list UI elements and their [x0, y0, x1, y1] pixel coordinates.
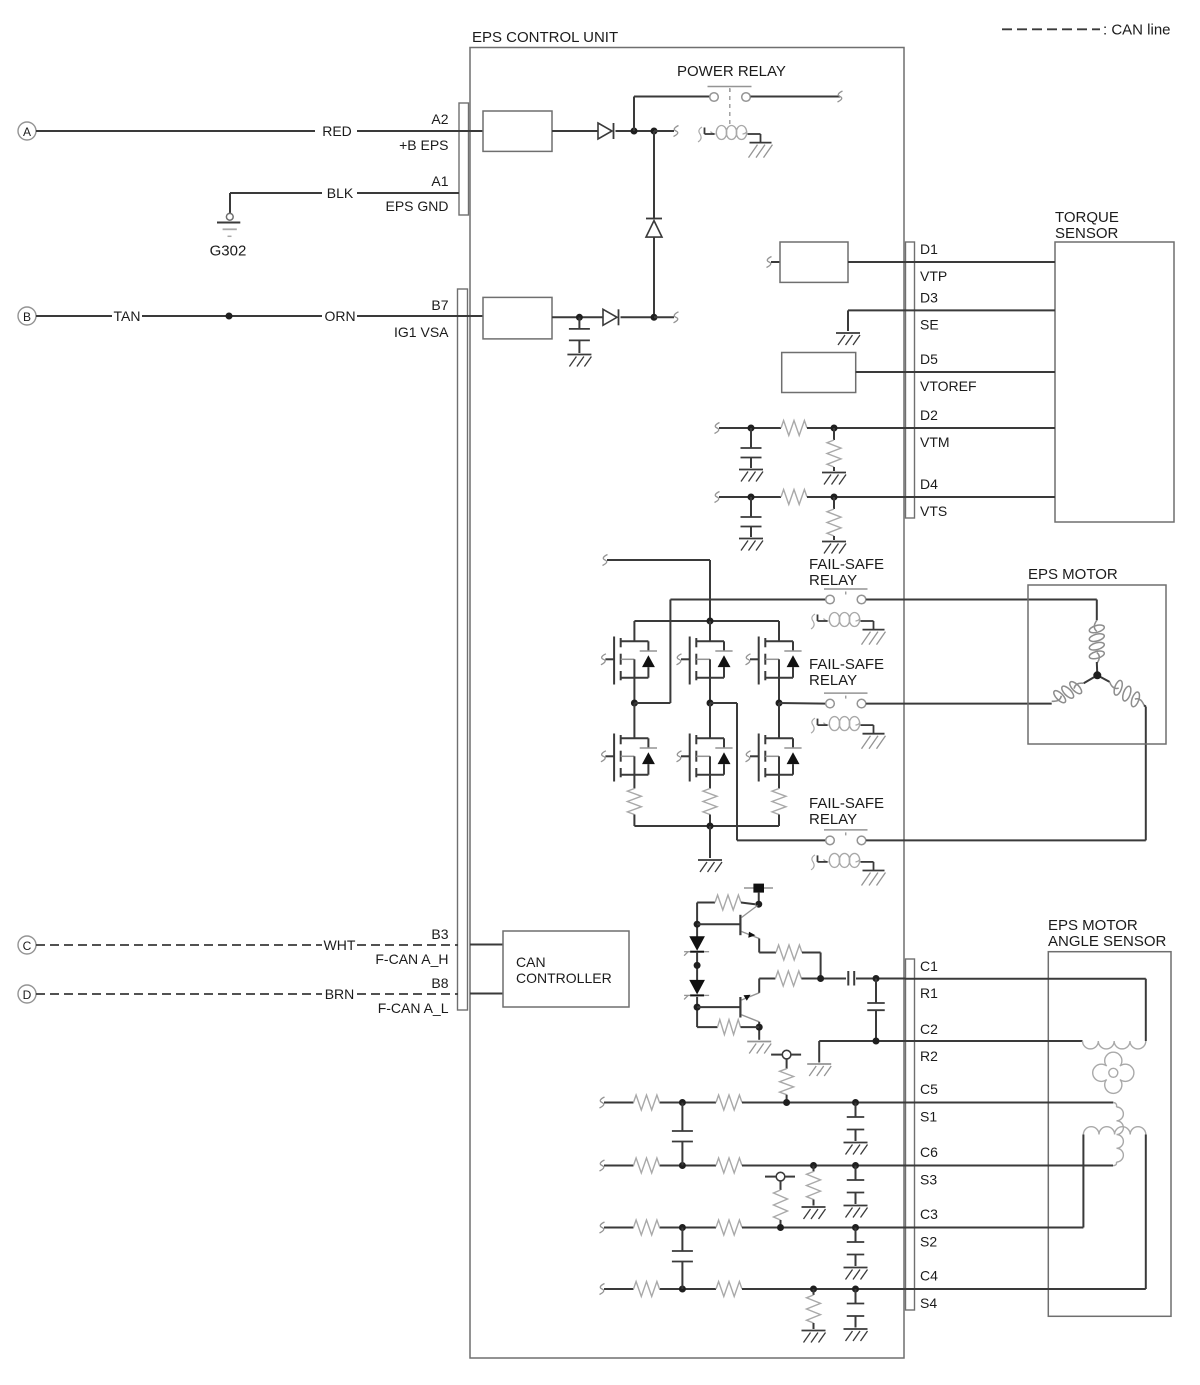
- wire S1 into sensor: [905, 1102, 1113, 1104]
- svg-text:SENSOR: SENSOR: [1055, 225, 1119, 242]
- wire stub to relay coil: [654, 130, 674, 132]
- series capacitor on C1 line: [848, 971, 854, 986]
- wire SE to torque sensor: [848, 309, 1055, 311]
- transistor Q1 collector: [742, 906, 758, 918]
- svg-text:VTP: VTP: [920, 268, 947, 284]
- source wire upper MOSFET U: [633, 678, 635, 703]
- wire diode to node P1: [616, 130, 655, 132]
- pin A2 label: [431, 111, 448, 127]
- svg-text:R1: R1: [920, 985, 938, 1001]
- upper MOSFET V (Q2): [677, 637, 733, 685]
- svg-text:S3: S3: [920, 1172, 937, 1188]
- pin R2 label: [920, 1048, 938, 1064]
- svg-text:VTOREF: VTOREF: [920, 378, 977, 394]
- svg-text:RELAY: RELAY: [809, 572, 857, 589]
- wire diode to IG1 node: [653, 237, 655, 317]
- transistor Q2 collector: [742, 1015, 760, 1022]
- svg-text:RELAY: RELAY: [809, 672, 857, 689]
- svg-text:C2: C2: [920, 1021, 938, 1037]
- pin S4 label: [920, 1295, 937, 1311]
- wire C3 right segment: [742, 1227, 905, 1229]
- svg-text:A1: A1: [431, 173, 448, 189]
- test tap on C3: [765, 1172, 795, 1227]
- wire node P2 down: [653, 131, 655, 219]
- junction C6 c: [852, 1162, 859, 1169]
- wire square to node Q1C: [758, 893, 760, 905]
- wire C5 left segment: [604, 1102, 716, 1104]
- capacitor on IG1 line: [569, 317, 590, 353]
- svg-text:TAN: TAN: [114, 308, 141, 324]
- FAIL-SAFE RELAY 1 label: [809, 556, 884, 589]
- bridge bottom rail: [634, 825, 779, 827]
- svg-text:C4: C4: [920, 1268, 938, 1284]
- lower MOSFET V (Q5): [677, 734, 733, 782]
- pin VTM label: [920, 434, 950, 450]
- ground on C2 line: [807, 1064, 831, 1076]
- series resistor 2 on C5: [716, 1095, 742, 1110]
- svg-text:VTM: VTM: [920, 434, 950, 450]
- break mark on C4 line: [600, 1284, 605, 1295]
- junction tap C3: [777, 1224, 784, 1231]
- drain wire upper MOSFET U: [633, 621, 635, 641]
- capacitor under VTM junction: [741, 428, 762, 468]
- break mark on VTM line: [715, 423, 720, 434]
- svg-text:C: C: [23, 939, 32, 953]
- pin VTP label: [920, 268, 947, 284]
- junction VTS 2: [831, 494, 838, 501]
- svg-text:FAIL-SAFE: FAIL-SAFE: [809, 556, 884, 573]
- motor winding U: [1088, 620, 1105, 663]
- TORQUE SENSOR box: [1055, 209, 1174, 522]
- svg-text:B8: B8: [431, 975, 448, 991]
- source wire upper MOSFET V: [709, 678, 711, 703]
- CAN line legend: [1002, 22, 1171, 39]
- shunt capacitor on C6: [847, 1166, 865, 1205]
- motor phase U lead: [1096, 600, 1098, 621]
- label TAN: [114, 308, 141, 324]
- shunt resistor phase U: [627, 789, 641, 815]
- ground under C4 capacitor: [844, 1329, 868, 1341]
- CAN low dashed wire left: [36, 993, 322, 995]
- fail-safe relay 1 coil: [811, 613, 886, 645]
- svg-text:TORQUE: TORQUE: [1055, 209, 1119, 226]
- phase V wire to fail-safe relay 3: [710, 703, 825, 840]
- drain wire upper MOSFET V: [709, 621, 711, 641]
- pin A2 name +B EPS: [399, 137, 448, 153]
- svg-text:A: A: [23, 125, 31, 139]
- shunt capacitor C1 to C2: [867, 979, 885, 1042]
- ground under C5 capacitor: [844, 1143, 868, 1155]
- wire between clamp diodes: [696, 952, 698, 981]
- label BLK: [327, 185, 354, 201]
- junction for damping resistor: [810, 1162, 817, 1169]
- pin S2 label: [920, 1234, 937, 1250]
- wire C1 into sensor: [905, 979, 1146, 1041]
- pin C2 label: [920, 1021, 938, 1037]
- resistor on VTS line: [781, 490, 807, 505]
- node C: [18, 936, 36, 954]
- damping resistor: [807, 1289, 821, 1329]
- pin D4 label: [920, 476, 938, 492]
- drain wire lower MOSFET W: [778, 703, 780, 738]
- junction tap C5: [783, 1099, 790, 1106]
- label ORN: [324, 308, 355, 324]
- junction for damping resistor: [810, 1286, 817, 1293]
- wire node B to TAN: [36, 315, 112, 317]
- junction phase W: [776, 700, 783, 707]
- junction C3 c: [852, 1224, 859, 1231]
- pin S3 label: [920, 1172, 937, 1188]
- wire B8 to CAN controller: [470, 993, 503, 995]
- wire C3 into sensor: [905, 1135, 1083, 1228]
- wire C4 right segment: [742, 1288, 905, 1290]
- break mark on C6 line: [600, 1160, 605, 1171]
- filter box on D1 line: [780, 242, 848, 282]
- bias resistor upper: [697, 895, 755, 910]
- svg-text:R2: R2: [920, 1048, 938, 1064]
- pin VTS label: [920, 503, 947, 519]
- svg-text:G302: G302: [210, 243, 247, 260]
- svg-text:FAIL-SAFE: FAIL-SAFE: [809, 795, 884, 812]
- pin A1 name EPS GND: [385, 198, 448, 214]
- FAIL-SAFE RELAY 2 label: [809, 656, 884, 689]
- base wire Q2: [697, 1006, 740, 1008]
- svg-text:IG1 VSA: IG1 VSA: [394, 324, 449, 340]
- resolver horizontal winding: [1083, 1127, 1145, 1135]
- ground under C3 capacitor: [844, 1268, 868, 1280]
- ground under damping resistor: [802, 1207, 826, 1219]
- power relay output wire: [751, 96, 840, 98]
- wire B7 box to junction: [552, 316, 603, 318]
- svg-text:BRN: BRN: [325, 986, 355, 1002]
- source wire upper MOSFET W: [778, 678, 780, 703]
- pin C3 label: [920, 1206, 938, 1222]
- wire ORN to pin B7: [357, 315, 483, 317]
- svg-text:D: D: [23, 988, 32, 1002]
- power relay coil dashes: [729, 88, 731, 125]
- motor winding W: [1110, 679, 1144, 707]
- break mark on VTS line: [715, 492, 720, 503]
- junction R3 R4: [817, 975, 824, 982]
- upper MOSFET W (Q3): [746, 637, 802, 685]
- EPS control unit box: [470, 29, 904, 1358]
- drain wire lower MOSFET V: [709, 703, 711, 738]
- svg-text:RED: RED: [322, 123, 352, 139]
- junction C5 a: [679, 1099, 686, 1106]
- wire D5 to torque sensor: [856, 371, 1055, 373]
- CAN high dashed wire left: [36, 944, 322, 946]
- fail-safe relay 2 contact: [824, 693, 868, 708]
- wire relay 2 to EPS motor: [866, 703, 1052, 705]
- test tap on C5: [771, 1050, 801, 1102]
- svg-text:BLK: BLK: [327, 185, 354, 201]
- junction node P2: [651, 128, 658, 135]
- svg-text:WHT: WHT: [324, 937, 356, 953]
- wire Q1 emitter to resistor: [759, 939, 776, 953]
- wire C4 into sensor: [905, 1135, 1146, 1290]
- series resistor 2 on C4: [716, 1282, 742, 1297]
- pin D5 label: [920, 351, 938, 367]
- wire filter to diode: [552, 130, 598, 132]
- series resistor 1 on C5: [634, 1095, 660, 1110]
- svg-text:RELAY: RELAY: [809, 811, 857, 828]
- svg-text:B7: B7: [431, 297, 448, 313]
- svg-text:: CAN line: : CAN line: [1103, 22, 1171, 39]
- damping resistor: [807, 1166, 821, 1206]
- pin A1 label: [431, 173, 448, 189]
- wire C4 left segment: [604, 1288, 716, 1290]
- junction phase V: [707, 700, 714, 707]
- fail-safe relay 3 coil: [811, 853, 886, 885]
- differential capacitor C5-C6: [672, 1103, 693, 1166]
- svg-text:ANGLE SENSOR: ANGLE SENSOR: [1048, 933, 1167, 950]
- svg-text:C1: C1: [920, 958, 938, 974]
- series resistor 1 on C6: [634, 1158, 660, 1173]
- series resistor 1 on C3: [634, 1220, 660, 1235]
- svg-text:EPS CONTROL UNIT: EPS CONTROL UNIT: [472, 29, 618, 46]
- junction VTS 1: [748, 494, 755, 501]
- capacitor under VTS junction: [741, 497, 762, 537]
- svg-text:D2: D2: [920, 407, 938, 423]
- pin C1 label: [920, 958, 938, 974]
- wire VTS right segment: [807, 496, 1055, 498]
- ground under VTS capacitor: [739, 539, 763, 551]
- junction upper base: [694, 921, 701, 928]
- wire node A to RED: [36, 130, 315, 132]
- ground under VTM capacitor: [739, 470, 763, 482]
- connector bracket B (pins B7 B3 B8): [458, 289, 468, 1010]
- connector bracket right lower (pins C1-S4): [906, 959, 915, 1310]
- fail-safe relay 2 coil: [811, 717, 886, 749]
- supply tap square: [744, 884, 773, 893]
- pin B8 name F-CAN A_L: [378, 1000, 449, 1016]
- ground on SE line: [836, 333, 860, 345]
- label RED: [322, 123, 352, 139]
- resolver vertical winding: [1113, 1103, 1123, 1166]
- svg-text:S2: S2: [920, 1234, 937, 1250]
- shunt capacitor on C5: [847, 1103, 865, 1142]
- pin C5 label: [920, 1081, 938, 1097]
- svg-text:D4: D4: [920, 476, 938, 492]
- break mark on C3 line: [600, 1222, 605, 1233]
- wire D1 to torque sensor: [848, 261, 1055, 263]
- node B: [18, 307, 36, 325]
- svg-text:S1: S1: [920, 1109, 937, 1125]
- FAIL-SAFE RELAY 3 label: [809, 795, 884, 828]
- junction VTM 2: [831, 425, 838, 432]
- power relay contact: [708, 87, 752, 102]
- bridge supply wire: [607, 560, 710, 621]
- transistor Q1 emitter: [742, 932, 760, 939]
- diode D+B: [598, 123, 614, 139]
- svg-text:F-CAN A_L: F-CAN A_L: [378, 1000, 449, 1016]
- svg-text:SE: SE: [920, 316, 939, 332]
- resolver excitation winding: [1083, 1041, 1146, 1049]
- shunt capacitor on C4: [847, 1289, 865, 1328]
- power relay coil: [698, 126, 773, 158]
- wire C3 left segment: [604, 1227, 716, 1229]
- wire bottom rail to ground: [709, 826, 711, 858]
- ground G302: [210, 193, 247, 260]
- POWER RELAY label: [677, 63, 786, 80]
- source wire lower MOSFET W: [778, 775, 780, 789]
- wire relay 3 to EPS motor: [866, 707, 1146, 841]
- base wire Q1: [697, 923, 740, 925]
- bias resistor lower: [697, 1020, 759, 1035]
- pin B7 name IG1 VSA: [394, 324, 449, 340]
- fail-safe relay 1 contact: [824, 589, 868, 604]
- svg-text:A2: A2: [431, 111, 448, 127]
- svg-text:B: B: [23, 310, 31, 324]
- series resistor 1 on C4: [634, 1282, 660, 1297]
- phase U wire to fail-safe relay 1: [634, 600, 825, 704]
- wire VTS left segment: [719, 496, 781, 498]
- wire G302 to BLK: [230, 192, 322, 194]
- svg-text:S4: S4: [920, 1295, 937, 1311]
- wire diode to node P3: [621, 316, 655, 318]
- junction C3 a: [679, 1224, 686, 1231]
- wire shunt to bottom rail V: [709, 815, 711, 827]
- series resistor R4: [775, 971, 846, 986]
- svg-text:D1: D1: [920, 241, 938, 257]
- series resistor R3: [776, 945, 821, 979]
- junction phase U: [631, 700, 638, 707]
- wire S3 into sensor: [905, 1165, 1113, 1167]
- junction on bottom rail: [707, 823, 714, 830]
- wire TAN to ORN: [142, 315, 322, 317]
- upper base rail: [696, 903, 698, 937]
- svg-text:B3: B3: [431, 926, 448, 942]
- svg-text:FAIL-SAFE: FAIL-SAFE: [809, 656, 884, 673]
- junction on IG1 line: [576, 314, 583, 321]
- svg-text:C3: C3: [920, 1206, 938, 1222]
- break mark on IG1 stub: [674, 312, 679, 323]
- wire capacitor to node C1: [856, 978, 905, 980]
- break mark on relay output: [838, 91, 843, 102]
- wire RED to pin A2: [357, 130, 483, 132]
- freewheel diode: [646, 219, 662, 238]
- upper MOSFET U (Q1): [601, 637, 657, 685]
- svg-text:POWER RELAY: POWER RELAY: [677, 63, 786, 80]
- pin D2 label: [920, 407, 938, 423]
- motor phase W lead: [1144, 705, 1146, 706]
- CAN CONTROLLER box: [503, 931, 629, 1007]
- junction C5 c: [852, 1099, 859, 1106]
- svg-text:C5: C5: [920, 1081, 938, 1097]
- shunt resistor phase W: [772, 789, 786, 815]
- junction Q2 collector: [756, 1024, 763, 1031]
- wire C5 right segment: [742, 1102, 905, 1104]
- junction between clamp diodes: [694, 962, 701, 969]
- source wire lower MOSFET U: [633, 775, 635, 789]
- ground under damping resistor: [802, 1331, 826, 1343]
- motor winding V: [1052, 680, 1084, 705]
- transistor Q1 base bar: [739, 915, 741, 935]
- wire relay 1 to EPS motor: [866, 599, 1097, 601]
- pin C4 label: [920, 1268, 938, 1284]
- splice junction on B wire: [226, 313, 233, 320]
- drain wire lower MOSFET U: [633, 703, 635, 738]
- fail-safe relay 3 contact: [824, 830, 868, 845]
- diode on IG1 line: [603, 309, 619, 325]
- wire VTM left segment: [719, 427, 781, 429]
- break mark on bridge supply: [603, 555, 608, 566]
- lower MOSFET U (Q4): [601, 734, 657, 782]
- wire Q2 collector to ground: [758, 1022, 760, 1040]
- junction C6 a: [679, 1162, 686, 1169]
- wire to D1 filter box: [771, 261, 780, 263]
- pin SE label: [920, 316, 939, 332]
- filter box on D5 line: [782, 353, 856, 393]
- drain wire upper MOSFET W: [778, 621, 780, 641]
- pin D1 label: [920, 241, 938, 257]
- motor star point: [1084, 662, 1110, 683]
- series resistor 2 on C3: [716, 1220, 742, 1235]
- svg-text:CONTROLLER: CONTROLLER: [516, 970, 612, 986]
- node A: [18, 122, 36, 140]
- wire diode 2 to lower base: [696, 997, 698, 1027]
- phase W wire to fail-safe relay 2: [779, 702, 825, 705]
- wire VTM right segment: [807, 427, 1055, 429]
- pulldown resistor on VTM: [827, 428, 841, 471]
- ground under IG1 capacitor: [567, 355, 591, 367]
- transistor Q2 base bar: [739, 997, 741, 1018]
- input filter box on IG1 line: [483, 297, 552, 339]
- svg-text:C6: C6: [920, 1144, 938, 1160]
- wire shunt to bottom rail U: [633, 815, 635, 827]
- bridge top rail: [634, 620, 779, 622]
- SE ground drop: [847, 310, 849, 331]
- source wire lower MOSFET V: [709, 775, 711, 789]
- bridge ground: [698, 860, 722, 872]
- label WHT: [324, 937, 356, 953]
- junction node Q1C: [755, 901, 762, 908]
- clamp diode 2: [684, 980, 709, 999]
- svg-text:EPS MOTOR: EPS MOTOR: [1028, 566, 1118, 583]
- pin B3 label: [431, 926, 448, 942]
- CAN low dashed wire right: [357, 993, 458, 995]
- pin D3 label: [920, 289, 938, 305]
- svg-text:ORN: ORN: [324, 308, 355, 324]
- break mark on C5 line: [600, 1097, 605, 1108]
- pulldown resistor on VTS: [827, 497, 841, 540]
- junction node C2: [873, 1038, 880, 1045]
- junction lower base: [694, 1004, 701, 1011]
- lower MOSFET W (Q6): [746, 734, 802, 782]
- break mark on D1 filter: [767, 257, 772, 268]
- svg-text:F-CAN A_H: F-CAN A_H: [375, 951, 448, 967]
- svg-text:VTS: VTS: [920, 503, 947, 519]
- series resistor 2 on C6: [716, 1158, 742, 1173]
- junction on top rail: [707, 618, 714, 625]
- svg-text:EPS MOTOR: EPS MOTOR: [1048, 917, 1138, 934]
- junction C4 c: [852, 1286, 859, 1293]
- junction node P3: [651, 314, 658, 321]
- label BRN: [325, 986, 355, 1002]
- junction VTM 1: [748, 425, 755, 432]
- svg-text:D3: D3: [920, 289, 938, 305]
- clamp diode 1: [684, 937, 709, 956]
- shunt resistor phase V: [703, 789, 717, 815]
- ground under C6 capacitor: [844, 1206, 868, 1218]
- pin S1 label: [920, 1109, 937, 1125]
- break mark on coil stub: [674, 126, 679, 137]
- differential capacitor C3-C4: [672, 1228, 693, 1290]
- junction node C1: [873, 975, 880, 982]
- wire C2 line: [819, 1040, 905, 1042]
- pin C6 label: [920, 1144, 938, 1160]
- EPS MOTOR ANGLE SENSOR box: [1048, 917, 1171, 1316]
